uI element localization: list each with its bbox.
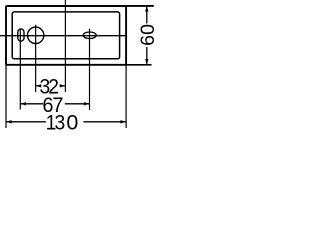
svg-text:3: 3: [55, 111, 66, 135]
svg-text:0: 0: [137, 24, 159, 35]
svg-text:0: 0: [66, 111, 78, 135]
svg-text:6: 6: [137, 35, 159, 46]
